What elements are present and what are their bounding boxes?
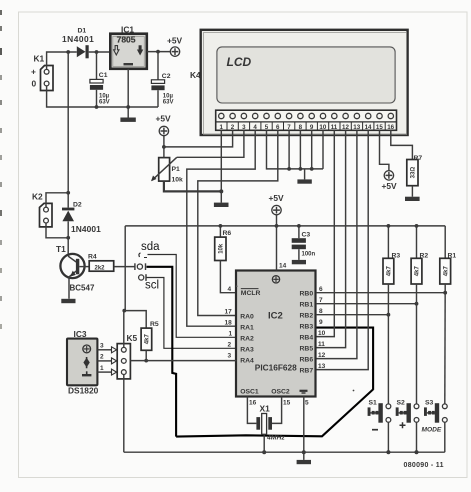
LCD pin numbers 1-16 (220, 124, 395, 131)
svg-text:11: 11 (318, 341, 325, 348)
svg-text:18: 18 (225, 320, 233, 327)
capacitor C3 (292, 224, 316, 260)
svg-text:+5V: +5V (167, 36, 183, 46)
svg-text:RB3: RB3 (300, 323, 314, 330)
resistor R7 (407, 155, 423, 186)
pushbutton S3 (422, 400, 448, 434)
resistor R5 (124, 311, 159, 361)
svg-text:R7: R7 (414, 155, 423, 162)
svg-text:6: 6 (276, 124, 280, 131)
wire LCD pin14 to RB7 (316, 130, 368, 369)
svg-text:C3: C3 (302, 232, 311, 239)
svg-text:RA2: RA2 (240, 335, 254, 342)
node raw+ branch (66, 50, 70, 54)
wire K1 bottom to gnd rail (47, 86, 158, 107)
svg-text:15: 15 (283, 399, 291, 406)
connector K1 (31, 54, 53, 91)
svg-text:5: 5 (265, 124, 269, 131)
wire D2 node down to T1 collector (67, 238, 69, 255)
svg-text:OSC2: OSC2 (271, 389, 290, 396)
svg-text:4k7: 4k7 (443, 266, 449, 277)
svg-text:R1: R1 (448, 253, 457, 260)
transistor T1 (56, 244, 95, 299)
svg-text:RB6: RB6 (300, 356, 314, 363)
ground (power) (120, 118, 135, 122)
svg-text:RA3: RA3 (240, 346, 254, 353)
resistor R2 (411, 224, 428, 284)
svg-text:RB5: RB5 (300, 345, 314, 352)
svg-text:OSC1: OSC1 (240, 389, 259, 396)
wire RB0 to R1/S3 (316, 292, 445, 294)
svg-text:scl: scl (145, 280, 159, 292)
wire RB1 to R2/S2 (316, 303, 417, 305)
svg-text:33Ω: 33Ω (411, 167, 417, 179)
wire S1 bottom to rail (387, 422, 389, 452)
svg-text:8: 8 (319, 308, 323, 315)
svg-text:9: 9 (319, 319, 323, 326)
svg-text:3: 3 (228, 353, 232, 360)
wire K2 pin2 to D2 anode node (46, 223, 68, 238)
svg-text:4k7: 4k7 (415, 266, 421, 277)
svg-text:13: 13 (353, 124, 360, 131)
svg-text:2k2: 2k2 (95, 265, 106, 271)
svg-text:T1: T1 (56, 244, 66, 254)
wire K5 pin2 to RA4 (DQ) (130, 360, 236, 362)
svg-text:C1: C1 (99, 72, 108, 79)
crystal X1 (247, 397, 285, 453)
node C2 top (156, 50, 160, 54)
svg-text:63V: 63V (99, 100, 110, 106)
svg-text:10: 10 (318, 330, 326, 337)
IC1 ground stub (127, 69, 129, 118)
svg-text:+: + (31, 67, 36, 77)
resistor R6 (215, 224, 237, 293)
resistor R3 (383, 224, 400, 284)
+5V rail (125, 225, 445, 227)
ground (T1 emitter) (61, 299, 75, 303)
svg-text:10: 10 (319, 124, 326, 131)
svg-text:RA0: RA0 (240, 313, 254, 320)
+5V symbol (P1/LCD) (156, 114, 172, 136)
svg-text:X1: X1 (260, 404, 271, 414)
ground rail (124, 451, 445, 453)
wire LCD pin3 to P1 wiper (177, 130, 244, 157)
wire S2 bottom to rail (416, 422, 418, 452)
temperature sensor IC3 DS1820 (67, 329, 99, 396)
voltage regulator IC1 7805 (110, 25, 147, 69)
svg-text:RB2: RB2 (300, 312, 314, 319)
wire K1 top to D1 (47, 52, 77, 69)
wire LCD pin1 to gnd node (220, 130, 222, 191)
ink speck (353, 390, 355, 392)
node C1 top (95, 50, 99, 54)
IC3 pin wires with arrows (97, 343, 116, 376)
wire LCD pin11 to RB4 (316, 130, 334, 336)
svg-text:R4: R4 (88, 253, 97, 260)
svg-text:K5: K5 (127, 333, 138, 343)
node pin1/P1 gnd (219, 189, 223, 193)
wire LCD pin10 (322, 130, 324, 169)
svg-text:1N4001: 1N4001 (71, 224, 101, 234)
svg-text:BC547: BC547 (70, 284, 95, 293)
wire P1 bottom to pin1 gnd node (bold) (164, 181, 221, 191)
diode D2 (62, 202, 101, 238)
svg-text:15: 15 (376, 124, 383, 131)
solder pad (base node) (135, 263, 146, 270)
svg-text:63V: 63V (163, 100, 174, 106)
svg-text:+5V: +5V (156, 114, 172, 124)
svg-text:12: 12 (342, 124, 349, 131)
wire RB2 to R3/S1 (316, 314, 388, 316)
wire +5V rail down to K5 pin3 (124, 226, 125, 348)
svg-text:K1: K1 (34, 54, 45, 64)
svg-text:12: 12 (318, 352, 326, 359)
svg-text:4k7: 4k7 (145, 334, 151, 345)
svg-text:MCLR: MCLR (241, 290, 261, 297)
+5V symbol (LCD backlight) (382, 171, 398, 191)
ground (LCD data low) (297, 169, 311, 184)
svg-text:IC3: IC3 (74, 329, 87, 339)
svg-text:5: 5 (305, 399, 309, 406)
svg-text:RB0: RB0 (300, 290, 314, 297)
svg-text:+5V: +5V (269, 193, 285, 203)
svg-text:R2: R2 (420, 253, 429, 260)
capacitor C2 (151, 52, 173, 107)
wire S3 bottom to rail corner (444, 422, 446, 452)
svg-text:PIC16F628: PIC16F628 (255, 363, 297, 373)
ground (R7) (405, 186, 420, 201)
wire IC1 out to +5V (147, 51, 171, 53)
svg-text:MODE: MODE (422, 427, 442, 434)
svg-text:4: 4 (228, 286, 232, 293)
wire +5V to P1 top (163, 136, 165, 158)
wire R2 to S2 (416, 284, 418, 404)
svg-text:9: 9 (310, 124, 314, 131)
capacitor C1 (90, 52, 110, 107)
svg-text:S1: S1 (369, 400, 378, 407)
LCD pin strip (216, 110, 397, 130)
wire sda to RA2 (148, 255, 237, 338)
wire VSS pin5 (303, 397, 305, 460)
connector K2 (32, 192, 52, 227)
svg-text:4MHz: 4MHz (266, 435, 285, 442)
svg-text:RB1: RB1 (300, 301, 314, 308)
svg-text:R5: R5 (150, 321, 159, 328)
svg-text:1: 1 (220, 124, 224, 131)
svg-text:16: 16 (387, 124, 394, 131)
svg-text:RB7: RB7 (300, 367, 314, 374)
potentiometer P1 (151, 157, 183, 183)
svg-text:RA4: RA4 (240, 357, 254, 364)
svg-text:R3: R3 (392, 253, 401, 260)
svg-text:14: 14 (279, 263, 287, 270)
pushbutton S1 (368, 400, 391, 430)
svg-text:K2: K2 (32, 192, 43, 202)
svg-text:RA1: RA1 (240, 324, 254, 331)
svg-text:7805: 7805 (117, 35, 136, 45)
svg-text:10k: 10k (172, 176, 184, 183)
resistor R4 (88, 253, 114, 271)
wire LCD pin2 to +5V node (164, 130, 233, 147)
svg-text:2: 2 (228, 342, 232, 349)
wire LCD pin12 to RB5 (316, 130, 346, 347)
svg-text:2: 2 (100, 354, 104, 361)
svg-text:7: 7 (319, 297, 323, 304)
svg-text:P1: P1 (172, 166, 181, 173)
LCD pin circles 1-16 (219, 113, 394, 118)
svg-text:10k: 10k (219, 243, 225, 254)
wire LCD pin9 (311, 130, 313, 169)
svg-text:11: 11 (331, 124, 338, 131)
svg-text:DS1820: DS1820 (68, 386, 99, 396)
wire T1 base to R4 (79, 266, 89, 268)
svg-text:RB4: RB4 (300, 334, 314, 341)
svg-text:S3: S3 (425, 400, 434, 407)
wire LCD pin7 (288, 130, 290, 169)
ground (C3) (292, 260, 306, 264)
wire LCD pin15 to +5V (380, 130, 389, 170)
svg-text:1: 1 (100, 365, 104, 372)
wire scl to RA3 (147, 278, 237, 349)
solder pad (sda) (139, 253, 147, 258)
scan edge marks (0, 10, 2, 329)
wire LCD pin8 (299, 130, 301, 169)
wire K2 pin1 to raw+ node (46, 193, 68, 207)
svg-text:1N4001: 1N4001 (62, 34, 94, 44)
IC2 pin numbers (225, 263, 326, 407)
svg-text:C2: C2 (162, 73, 171, 80)
solder pad (scl) (139, 274, 146, 281)
wire raw+ down to D2 (67, 52, 69, 208)
svg-text:4: 4 (253, 124, 257, 131)
wire LCD pin6 to RA0 (198, 130, 278, 315)
svg-text:sda: sda (141, 241, 160, 253)
wire R3 to S1 (387, 284, 389, 404)
svg-text:1: 1 (229, 331, 233, 338)
connector K5 (117, 333, 137, 379)
svg-text:16: 16 (249, 399, 257, 406)
wire D1 to IC1 (89, 51, 111, 53)
svg-text:K4: K4 (190, 70, 201, 80)
+5V symbol (logic supply) (269, 193, 285, 226)
LCD pin cell separators (227, 122, 385, 130)
annotation wire pad to RB3 (147, 267, 177, 437)
svg-text:IC1: IC1 (121, 25, 134, 35)
ground (VSS) (297, 460, 311, 464)
svg-text:LCD: LCD (227, 55, 252, 69)
pushbutton S2 (396, 400, 419, 429)
svg-text:2: 2 (231, 124, 235, 131)
svg-text:7: 7 (287, 124, 291, 131)
svg-text:6: 6 (319, 286, 323, 293)
wire LCD pin13 to RB6 (316, 130, 357, 358)
wire R4 to solder pad (114, 266, 135, 268)
svg-text:080090 - 11: 080090 - 11 (404, 462, 444, 469)
wire LCD pin16 to R7 (391, 130, 413, 159)
svg-text:13: 13 (318, 363, 326, 370)
microcontroller IC2 PIC16F628 (236, 271, 316, 397)
diode D1 (62, 28, 94, 59)
svg-text:3: 3 (100, 343, 104, 350)
svg-text:17: 17 (225, 309, 233, 316)
svg-text:3: 3 (242, 124, 246, 131)
wire K5 pin1 to ground rail (123, 374, 125, 452)
svg-text:4k7: 4k7 (387, 266, 393, 277)
node C1 bottom (95, 105, 99, 109)
LCD module K4 (190, 30, 408, 135)
svg-text:8: 8 (299, 124, 303, 131)
wire R1 to S3 (444, 284, 446, 404)
svg-text:+5V: +5V (382, 181, 398, 191)
svg-text:0: 0 (32, 79, 37, 89)
wire LCD pin5 to gnd line (267, 130, 324, 169)
svg-text:D2: D2 (73, 202, 82, 209)
svg-text:IC2: IC2 (268, 311, 283, 322)
svg-text:100n: 100n (302, 252, 316, 258)
resistor R1 (440, 226, 457, 284)
wire LCD pin4 to RA1 (187, 130, 255, 326)
svg-text:R6: R6 (223, 230, 232, 237)
+5V symbol (IC1 output) (167, 36, 183, 57)
svg-text:14: 14 (365, 124, 372, 131)
svg-text:S2: S2 (397, 400, 406, 407)
wire VDD pin14 (276, 226, 278, 271)
ground (LCD pin1) (214, 191, 229, 207)
